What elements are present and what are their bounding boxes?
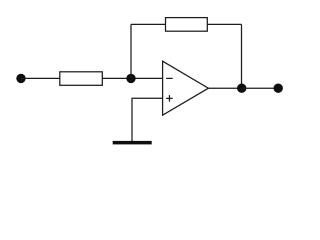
resistor R2 feedback bbox=[166, 18, 208, 32]
wire junction up to feedback bbox=[130, 24, 132, 78]
node junction dot bbox=[126, 74, 135, 83]
op-amp plus symbol bbox=[166, 95, 173, 102]
ground bbox=[113, 141, 152, 145]
wire R1 to op-amp inverting input bbox=[102, 77, 162, 79]
resistor R1 bbox=[60, 72, 103, 86]
output node dot bbox=[237, 84, 246, 93]
op-amp minus symbol bbox=[166, 77, 173, 79]
wire feedback left segment bbox=[131, 23, 166, 25]
output terminal dot bbox=[274, 84, 283, 93]
wire feedback down to output node bbox=[241, 24, 243, 88]
wire input to R1 bbox=[21, 77, 60, 79]
input terminal dot bbox=[16, 74, 25, 83]
wire feedback right segment bbox=[207, 23, 241, 25]
wire output to terminal bbox=[242, 87, 279, 89]
op-amp U1 triangle bbox=[163, 61, 209, 115]
wire plus input bbox=[132, 98, 163, 141]
wire op-amp output bbox=[208, 87, 241, 89]
